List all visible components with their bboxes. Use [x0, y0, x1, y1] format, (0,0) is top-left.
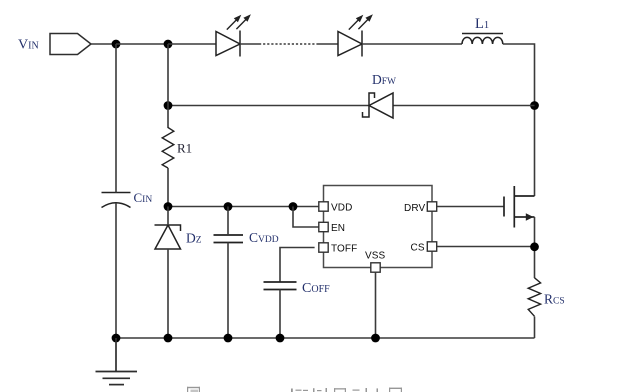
node (CVDD junction): [224, 202, 233, 211]
svg-text:TOFF: TOFF: [331, 244, 357, 255]
svg-text:L1: L1: [475, 16, 489, 32]
node (CVDD gnd): [224, 334, 233, 343]
resistor RCS: [528, 278, 540, 317]
connector VIN: [50, 34, 91, 55]
transistor Q1 (NMOS): [504, 186, 535, 228]
wire: [227, 243, 229, 339]
svg-text:DZ: DZ: [186, 231, 202, 246]
wire (DFW rail left): [168, 105, 369, 107]
capacitor CVDD: [214, 235, 244, 243]
wire (dashed LED string continuation): [259, 43, 318, 45]
node (Dz gnd): [164, 334, 173, 343]
diode DFW (schottky): [363, 93, 394, 118]
wire (DRV to gate): [437, 206, 504, 208]
wire: [362, 43, 462, 45]
svg-text:DRV: DRV: [404, 203, 425, 214]
wire: [534, 317, 536, 339]
wire (DFW rail right): [393, 105, 535, 107]
wire: [503, 44, 535, 196]
node (R1 top junction): [164, 40, 173, 49]
node (R1/Dz junction): [164, 202, 173, 211]
wire (VDD rail): [168, 206, 319, 208]
wire (CS): [437, 246, 535, 248]
svg-text:CS: CS: [411, 243, 425, 254]
svg-text:CIN: CIN: [134, 190, 153, 205]
pin VSS: [371, 263, 380, 272]
wire: [227, 207, 229, 236]
wire: [115, 44, 117, 193]
wire: [240, 43, 259, 45]
node (CIN gnd): [112, 334, 121, 343]
wire: [167, 249, 169, 338]
pin DRV: [427, 202, 436, 211]
svg-text:CVDD: CVDD: [249, 230, 279, 245]
wire (source down to CS node): [534, 217, 536, 278]
node (EN tap junction): [289, 202, 298, 211]
wire (ground rail): [116, 337, 535, 339]
capacitor COFF: [264, 282, 297, 290]
svg-text:VDD: VDD: [331, 203, 352, 214]
svg-text:EN: EN: [331, 223, 345, 234]
wire (TOFF to COFF): [280, 248, 315, 283]
pin EN: [319, 222, 328, 231]
node (CS junction): [530, 242, 539, 251]
capacitor CIN: [102, 193, 131, 208]
node (VSS gnd): [371, 334, 380, 343]
zener diode Dz: [155, 225, 181, 249]
svg-text:DFW: DFW: [372, 72, 396, 87]
wire: [167, 44, 169, 128]
wire: [116, 43, 168, 45]
node (VIN junction): [112, 40, 121, 49]
wire (EN tap): [293, 207, 319, 228]
svg-text:VIN: VIN: [18, 38, 39, 53]
pin TOFF: [319, 243, 328, 252]
wire: [318, 43, 338, 45]
LED D1: [216, 14, 251, 56]
svg-text:COFF: COFF: [302, 281, 330, 296]
node (switch node on DFW rail): [530, 101, 539, 110]
pin VDD: [319, 202, 328, 211]
svg-text:R1: R1: [177, 141, 192, 156]
caption (clipped figure title, faint glyph tops): [187, 387, 402, 392]
wire (VSS to ground rail): [375, 272, 377, 338]
svg-text:VSS: VSS: [365, 251, 386, 262]
op-amp U1 (controller IC body): [324, 186, 433, 268]
LED D2: [338, 14, 373, 56]
svg-text:RCS: RCS: [544, 292, 565, 307]
wire: [167, 168, 169, 207]
resistor R1: [162, 128, 174, 169]
pin CS: [427, 242, 436, 251]
wire: [279, 290, 281, 339]
node (DFW/R1 junction): [164, 101, 173, 110]
wire: [167, 207, 169, 226]
node (COFF gnd): [276, 334, 285, 343]
inductor L1: [462, 34, 503, 45]
ground: [96, 338, 138, 385]
wire: [115, 203, 117, 338]
wire: [91, 43, 116, 45]
wire: [168, 43, 216, 45]
